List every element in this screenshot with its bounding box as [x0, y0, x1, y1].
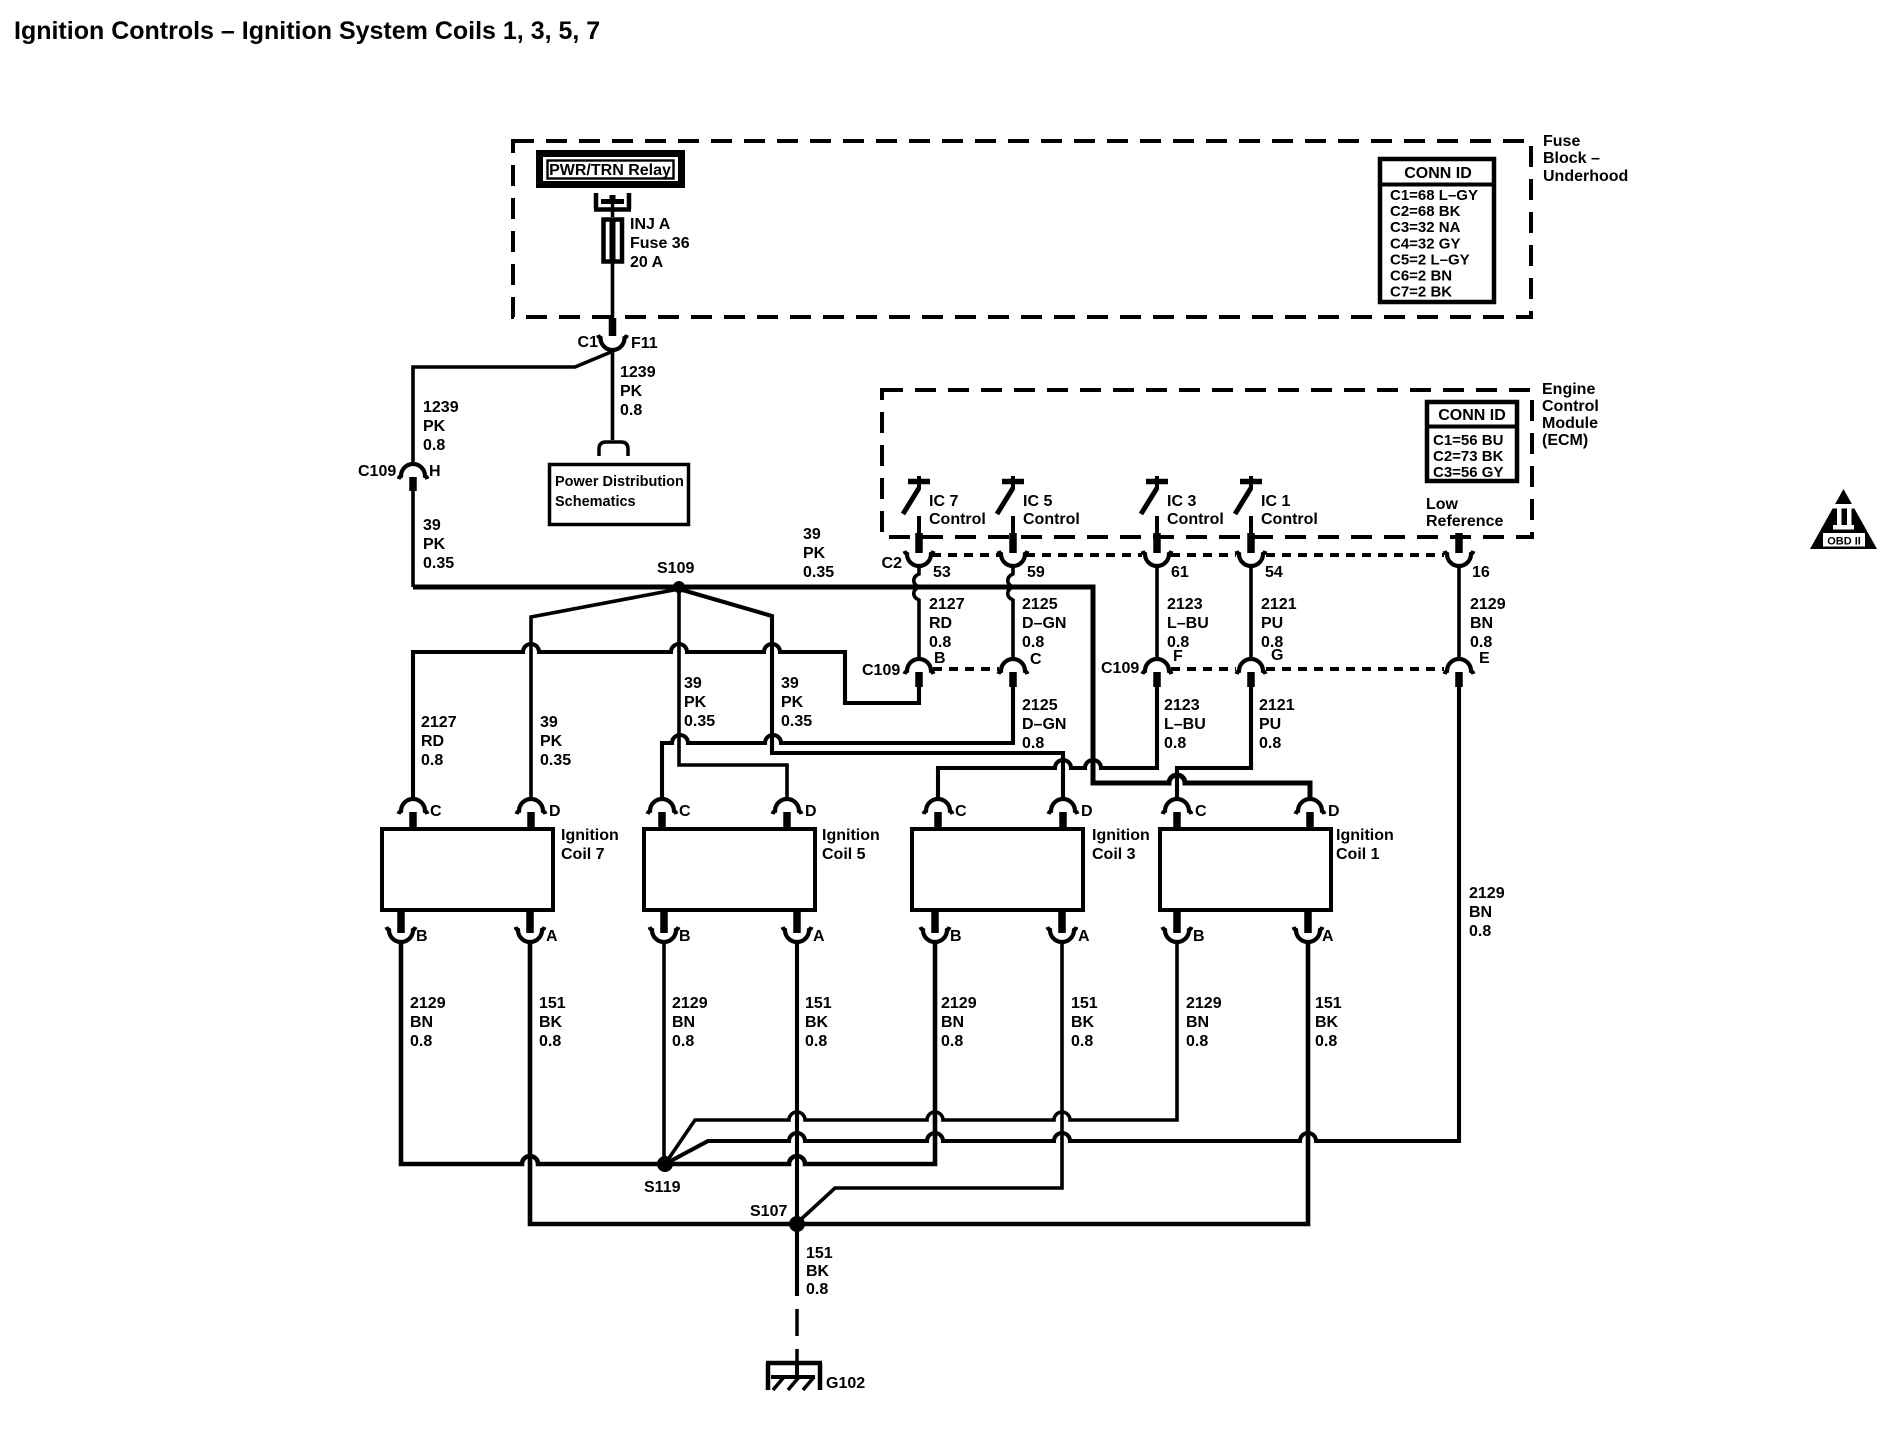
svg-text:0.8: 0.8 [672, 1033, 694, 1050]
svg-text:2129: 2129 [672, 995, 708, 1012]
svg-text:BN: BN [1470, 615, 1493, 632]
label 151 BK 0.8 (ground) [806, 1245, 833, 1298]
svg-text:Power Distribution: Power Distribution [555, 474, 684, 490]
svg-text:E: E [1479, 650, 1490, 667]
svg-text:2129: 2129 [410, 995, 446, 1012]
svg-text:2121: 2121 [1259, 697, 1295, 714]
svg-text:0.8: 0.8 [929, 634, 951, 651]
svg-text:0.8: 0.8 [1071, 1033, 1093, 1050]
ECM pin 61 [1143, 533, 1189, 581]
splice S107 [750, 1203, 805, 1232]
svg-text:2123: 2123 [1167, 596, 1203, 613]
svg-text:S107: S107 [750, 1203, 787, 1220]
svg-text:IC 7: IC 7 [929, 493, 958, 510]
ground G102 [766, 1363, 865, 1392]
wire 2129 BN pin E bus L2 to S119 [665, 687, 1459, 1164]
svg-text:2127: 2127 [929, 596, 965, 613]
svg-text:0.8: 0.8 [1186, 1033, 1208, 1050]
ignition coil 7 [382, 799, 619, 945]
svg-text:0.8: 0.8 [1022, 634, 1044, 651]
wire 151 BK coil3 A to S107 [797, 942, 1062, 1223]
svg-text:Underhood: Underhood [1543, 168, 1628, 185]
label 151 BK 0.8 [1315, 995, 1342, 1050]
svg-text:C109: C109 [862, 662, 900, 679]
driver IC 7 Control [903, 476, 986, 534]
svg-text:C: C [1030, 651, 1042, 668]
svg-text:C: C [430, 803, 442, 820]
splice S109 [657, 560, 694, 593]
svg-text:Engine: Engine [1542, 381, 1595, 398]
wire 2125 D-GN pin59 to C109 C [1008, 566, 1013, 659]
svg-text:151: 151 [1315, 995, 1342, 1012]
svg-text:C1=56 BU: C1=56 BU [1433, 432, 1503, 449]
svg-text:A: A [546, 928, 558, 945]
svg-text:151: 151 [806, 1245, 833, 1262]
svg-text:BK: BK [805, 1014, 829, 1031]
svg-text:PK: PK [620, 383, 643, 400]
label 2129 BN 0.8 [410, 995, 446, 1050]
svg-text:F11: F11 [631, 335, 658, 352]
OBD II marker [1810, 489, 1877, 549]
label 2127 RD 0.8 [929, 596, 965, 651]
svg-text:Module: Module [1542, 415, 1598, 432]
label 2125 D-GN 0.8 [1022, 596, 1066, 651]
svg-text:C1: C1 [578, 334, 599, 351]
svg-text:A: A [1078, 928, 1090, 945]
connector C109 (B C) label [862, 662, 900, 679]
svg-text:151: 151 [1071, 995, 1098, 1012]
svg-text:C: C [955, 803, 967, 820]
label 39 PK 0.35 (trunk) [803, 526, 834, 581]
label 2125 D-GN 0.8 (lower) [1022, 697, 1066, 752]
svg-text:C3=32 NA: C3=32 NA [1390, 219, 1461, 236]
splice S119 [644, 1156, 681, 1196]
svg-text:Control: Control [1542, 398, 1599, 415]
svg-text:PWR/TRN Relay: PWR/TRN Relay [549, 162, 671, 179]
svg-text:BN: BN [410, 1014, 433, 1031]
svg-text:Ignition Controls – Ignition S: Ignition Controls – Ignition System Coil… [14, 17, 600, 45]
label 151 BK 0.8 [805, 995, 832, 1050]
svg-text:C2=68 BK: C2=68 BK [1390, 203, 1461, 220]
svg-text:151: 151 [539, 995, 566, 1012]
svg-text:Ignition: Ignition [561, 827, 619, 844]
svg-text:0.8: 0.8 [423, 437, 445, 454]
svg-text:PK: PK [423, 418, 446, 435]
svg-text:D–GN: D–GN [1022, 615, 1066, 632]
svg-text:BN: BN [1469, 904, 1492, 921]
svg-text:C109: C109 [1101, 660, 1139, 677]
svg-text:Ignition: Ignition [1092, 827, 1150, 844]
wire 39 PK below C109 H [411, 491, 415, 587]
svg-text:0.8: 0.8 [539, 1033, 561, 1050]
svg-text:0.8: 0.8 [410, 1033, 432, 1050]
svg-text:Fuse 36: Fuse 36 [630, 235, 690, 252]
svg-text:D: D [1328, 803, 1340, 820]
svg-text:2125: 2125 [1022, 697, 1058, 714]
svg-text:B: B [416, 928, 428, 945]
ECM pin 53 [905, 533, 951, 581]
wire 39 PK trunk to coil 1 D [413, 587, 1310, 800]
svg-text:C: C [679, 803, 691, 820]
svg-text:IC 1: IC 1 [1261, 493, 1290, 510]
svg-text:Ignition: Ignition [822, 827, 880, 844]
svg-text:Coil 5: Coil 5 [822, 846, 866, 863]
wire 2127 RD C109 B to coil 7 C [413, 644, 919, 800]
driver IC 3 Control [1141, 476, 1224, 534]
label 2123 L-BU 0.8 (lower) [1164, 697, 1206, 752]
svg-text:61: 61 [1171, 564, 1189, 581]
connector label C2 [882, 555, 903, 572]
wire 2129 BN coil1 B bus L1 to S119 [665, 942, 1177, 1164]
wire 39 PK to coil 7 D [531, 589, 679, 800]
label 2129 BN 0.8 [941, 995, 977, 1050]
connector C1 pin F11 [578, 318, 658, 352]
svg-text:0.8: 0.8 [941, 1033, 963, 1050]
ignition coil 1 [1160, 799, 1394, 945]
svg-text:D: D [1081, 803, 1093, 820]
svg-text:BN: BN [672, 1014, 695, 1031]
wire 2125 D-GN C109 C to coil 5 C [662, 687, 1013, 800]
engine control module dashed box [882, 390, 1532, 537]
svg-text:0.8: 0.8 [1259, 735, 1281, 752]
dashed link C109 pins [933, 667, 1444, 671]
svg-text:PK: PK [781, 694, 804, 711]
svg-text:A: A [1322, 928, 1334, 945]
svg-text:G102: G102 [826, 1375, 865, 1392]
svg-text:C1=68 L–GY: C1=68 L–GY [1390, 187, 1478, 204]
connector C109 pin B [905, 650, 946, 687]
svg-text:39: 39 [684, 675, 702, 692]
svg-text:0.8: 0.8 [805, 1033, 827, 1050]
svg-text:0.8: 0.8 [1469, 923, 1491, 940]
svg-text:Control: Control [1167, 511, 1224, 528]
svg-text:Ignition: Ignition [1336, 827, 1394, 844]
label 2123 L-BU 0.8 [1167, 596, 1209, 651]
svg-text:Coil 7: Coil 7 [561, 846, 605, 863]
svg-text:CONN ID: CONN ID [1438, 407, 1506, 424]
svg-text:2129: 2129 [941, 995, 977, 1012]
svg-text:0.8: 0.8 [421, 752, 443, 769]
relay contact symbol [594, 193, 631, 217]
svg-text:D: D [805, 803, 817, 820]
svg-text:F: F [1173, 648, 1183, 665]
svg-text:INJ A: INJ A [630, 216, 671, 233]
label 2121 PU 0.8 [1261, 596, 1297, 651]
svg-text:BK: BK [539, 1014, 563, 1031]
label 2129 BN 0.8 [672, 995, 708, 1050]
svg-text:OBD II: OBD II [1827, 536, 1861, 548]
connector C109 pin F [1143, 648, 1184, 687]
label 1239 PK 0.8 (left) [423, 399, 459, 454]
svg-text:54: 54 [1265, 564, 1283, 581]
ECM pin 16 [1445, 533, 1490, 581]
wire 2123 L-BU C109 F to coil 3 C [938, 687, 1157, 800]
wire 1239 PK to Power Distribution [611, 350, 615, 440]
svg-text:39: 39 [540, 714, 558, 731]
svg-text:D–GN: D–GN [1022, 716, 1066, 733]
svg-text:BK: BK [806, 1263, 830, 1280]
label 2121 PU 0.8 (lower) [1259, 697, 1295, 752]
svg-text:D: D [549, 803, 561, 820]
svg-text:PU: PU [1261, 615, 1283, 632]
ECM label [1542, 381, 1599, 449]
label 151 BK 0.8 [539, 995, 566, 1050]
svg-text:PK: PK [684, 694, 707, 711]
svg-text:Block –: Block – [1543, 150, 1600, 167]
svg-text:39: 39 [803, 526, 821, 543]
driver IC 5 Control [997, 476, 1080, 534]
wire 2129 BN pin16 down right side [1457, 566, 1461, 659]
label 39 PK 0.35 (coil7 D) [540, 714, 571, 769]
svg-text:BK: BK [1315, 1014, 1339, 1031]
ignition coil 5 [644, 799, 880, 945]
off-page bracket [599, 442, 628, 456]
svg-text:C109: C109 [358, 463, 396, 480]
label 39 PK 0.35 (coil3 D) [781, 675, 812, 730]
svg-text:G: G [1271, 647, 1283, 664]
label 1239 PK 0.8 (right) [620, 364, 656, 419]
ECM pin 54 [1237, 533, 1283, 581]
label 2129 BN 0.8 (pin16) [1470, 596, 1506, 651]
svg-text:Reference: Reference [1426, 513, 1503, 530]
svg-text:S109: S109 [657, 560, 694, 577]
svg-text:B: B [950, 928, 962, 945]
label 2129 BN 0.8 (right side) [1469, 885, 1505, 940]
svg-text:C: C [1195, 803, 1207, 820]
svg-text:C5=2 L–GY: C5=2 L–GY [1390, 251, 1470, 268]
svg-text:(ECM): (ECM) [1542, 432, 1588, 449]
svg-text:B: B [679, 928, 691, 945]
svg-text:2123: 2123 [1164, 697, 1200, 714]
svg-text:B: B [934, 650, 946, 667]
svg-text:2129: 2129 [1186, 995, 1222, 1012]
wire 2129 BN coil5 B to S119 [662, 942, 666, 1164]
svg-text:2121: 2121 [1261, 596, 1297, 613]
svg-text:1239: 1239 [620, 364, 656, 381]
svg-text:BK: BK [1071, 1014, 1095, 1031]
svg-text:0.35: 0.35 [803, 564, 834, 581]
svg-text:53: 53 [933, 564, 951, 581]
svg-text:C7=2 BK: C7=2 BK [1390, 284, 1452, 301]
svg-text:RD: RD [929, 615, 952, 632]
svg-text:C2: C2 [882, 555, 903, 572]
svg-text:RD: RD [421, 733, 444, 750]
svg-text:S119: S119 [644, 1179, 681, 1196]
svg-text:Control: Control [929, 511, 986, 528]
wire 151 BK coil7 A / coil1 A bus L4 [530, 942, 1308, 1224]
wire 151 BK coil5 A through S107 [795, 942, 799, 1296]
svg-text:H: H [429, 463, 441, 480]
svg-text:0.8: 0.8 [1315, 1033, 1337, 1050]
svg-text:0.8: 0.8 [620, 402, 642, 419]
label 2127 RD 0.8 (coil7 C) [421, 714, 457, 769]
svg-text:Low: Low [1426, 496, 1459, 513]
svg-text:20 A: 20 A [630, 254, 664, 271]
svg-text:Fuse: Fuse [1543, 133, 1580, 150]
wire 2129 BN coil7 B / coil3 B bus L3 [401, 942, 935, 1164]
label 151 BK 0.8 [1071, 995, 1098, 1050]
svg-text:PK: PK [423, 536, 446, 553]
svg-text:C6=2 BN: C6=2 BN [1390, 268, 1452, 285]
svg-text:Control: Control [1261, 511, 1318, 528]
ECM pin 59 [999, 533, 1045, 581]
svg-text:PU: PU [1259, 716, 1281, 733]
box Power Distribution Schematics [550, 465, 689, 525]
wire 2121 PU C109 G to coil 1 C [1177, 687, 1251, 800]
svg-text:IC 3: IC 3 [1167, 493, 1196, 510]
connector C109 (F G E) label [1101, 660, 1139, 677]
ECM CONN ID table [1425, 402, 1519, 481]
svg-text:1239: 1239 [423, 399, 459, 416]
wire 2127 RD pin53 to C109 B [914, 566, 919, 659]
svg-text:0.35: 0.35 [540, 752, 571, 769]
label 39 PK 0.35 (left) [423, 517, 454, 572]
fuse block underhood dashed box [513, 141, 1531, 317]
svg-text:PK: PK [803, 545, 826, 562]
svg-text:IC 5: IC 5 [1023, 493, 1052, 510]
fuse F36 INJ A 20A [604, 216, 690, 271]
svg-text:16: 16 [1472, 564, 1490, 581]
svg-text:CONN ID: CONN ID [1404, 165, 1472, 182]
svg-text:BN: BN [941, 1014, 964, 1031]
svg-text:L–BU: L–BU [1167, 615, 1209, 632]
svg-text:2129: 2129 [1469, 885, 1505, 902]
svg-text:2127: 2127 [421, 714, 457, 731]
svg-text:Coil 3: Coil 3 [1092, 846, 1136, 863]
ECM Low Reference label [1426, 496, 1503, 530]
svg-text:0.8: 0.8 [1470, 634, 1492, 651]
svg-text:Coil 1: Coil 1 [1336, 846, 1380, 863]
svg-text:Schematics: Schematics [555, 494, 636, 510]
driver IC 1 Control [1235, 476, 1318, 534]
svg-text:L–BU: L–BU [1164, 716, 1206, 733]
svg-text:0.35: 0.35 [781, 713, 812, 730]
wire 151 BK dashed to ground [795, 1309, 799, 1361]
svg-text:B: B [1193, 928, 1205, 945]
svg-text:C2=73 BK: C2=73 BK [1433, 448, 1504, 465]
connector C109 pin E [1445, 650, 1491, 687]
svg-text:2129: 2129 [1470, 596, 1506, 613]
fuse block CONN ID table [1378, 159, 1496, 302]
connector C109 pin G [1237, 647, 1284, 687]
svg-text:0.8: 0.8 [806, 1281, 828, 1298]
svg-text:BN: BN [1186, 1014, 1209, 1031]
svg-text:C3=56 GY: C3=56 GY [1433, 464, 1503, 481]
fuse block label [1543, 133, 1628, 185]
svg-text:C4=32 GY: C4=32 GY [1390, 235, 1460, 252]
svg-text:151: 151 [805, 995, 832, 1012]
wire 2123 L-BU pin61 to C109 F [1155, 566, 1159, 659]
svg-text:A: A [813, 928, 825, 945]
wire fuse to C1 [611, 263, 615, 318]
svg-text:0.8: 0.8 [1022, 735, 1044, 752]
connector C109 pin C [999, 651, 1043, 687]
relay PWR/TRN Relay [540, 154, 682, 185]
wire 39 PK to coil 3 D [679, 589, 1063, 800]
wire 2121 PU pin54 to C109 G [1249, 566, 1253, 659]
svg-text:0.35: 0.35 [684, 713, 715, 730]
svg-text:2125: 2125 [1022, 596, 1058, 613]
svg-text:0.8: 0.8 [1164, 735, 1186, 752]
label 39 PK 0.35 (coil5 D) [684, 675, 715, 730]
dashed link ECM pins [932, 553, 1444, 557]
wire 1239 PK branch to C109 H [413, 352, 611, 464]
label 2129 BN 0.8 [1186, 995, 1222, 1050]
svg-text:39: 39 [423, 517, 441, 534]
connector C109 pin H [358, 463, 441, 491]
svg-text:39: 39 [781, 675, 799, 692]
wire 39 PK to coil 5 D [679, 587, 787, 800]
ignition coil 3 [912, 799, 1150, 945]
svg-text:PK: PK [540, 733, 563, 750]
svg-text:Control: Control [1023, 511, 1080, 528]
svg-text:59: 59 [1027, 564, 1045, 581]
svg-text:0.35: 0.35 [423, 555, 454, 572]
